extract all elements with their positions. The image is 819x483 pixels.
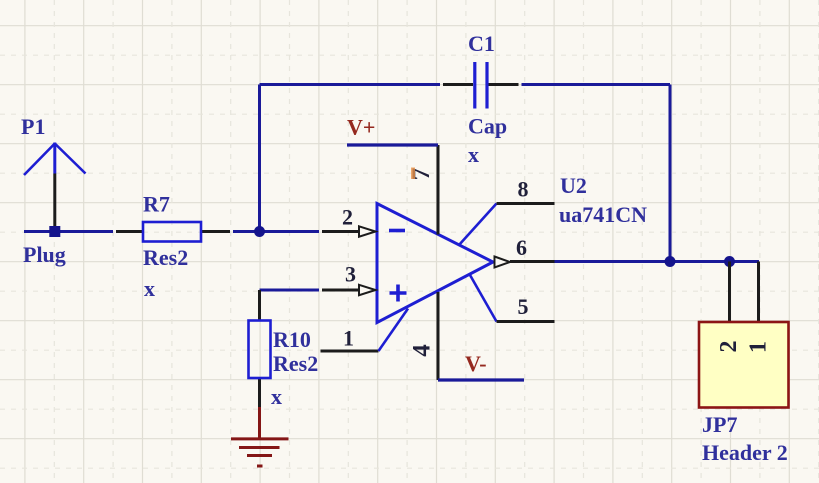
wire: R10 node to non-inverting input	[260, 289, 320, 292]
svg-text:Cap: Cap	[468, 114, 507, 139]
junction: header tap	[724, 256, 735, 267]
power port GND (ground symbol)	[231, 407, 289, 466]
connector P1 (plug symbol)	[24, 143, 86, 227]
junction: inverting input node	[254, 226, 265, 237]
svg-text:x: x	[271, 384, 282, 409]
svg-text:JP7: JP7	[702, 412, 737, 437]
svg-text:1: 1	[746, 341, 772, 353]
resistor R7	[116, 222, 230, 242]
connector JP7 (header)	[699, 262, 789, 408]
wire: feedback top run (left of C1)	[260, 83, 441, 86]
svg-text:Plug: Plug	[23, 242, 66, 267]
svg-text:V-: V-	[465, 351, 487, 376]
wire: feedback right vertical	[669, 85, 672, 262]
svg-text:Header 2: Header 2	[702, 440, 788, 465]
svg-text:x: x	[468, 142, 479, 167]
jpeg artifact tint near pin 7	[411, 168, 415, 180]
pin 8	[459, 204, 555, 246]
pin 5	[470, 275, 555, 322]
svg-text:5: 5	[518, 294, 529, 319]
power port V-	[438, 378, 524, 381]
resistor R10	[249, 290, 271, 407]
svg-text:Res2: Res2	[273, 351, 318, 376]
svg-text:8: 8	[518, 177, 529, 202]
wire: feedback left vertical	[258, 85, 261, 232]
svg-text:R7: R7	[143, 192, 170, 217]
svg-text:1: 1	[343, 326, 354, 351]
junction: P1 pin to wire (square)	[49, 226, 60, 237]
wire: feedback top run (right of C1)	[522, 83, 671, 86]
wire: input net from P1 to R7	[24, 230, 113, 233]
pin 6 (output)	[495, 257, 555, 268]
pin 7 (V+ supply pin)	[437, 145, 440, 235]
svg-text:C1: C1	[468, 31, 495, 56]
pin 2 (inverting input)	[322, 226, 376, 236]
op-amp U2 triangle body	[377, 204, 493, 323]
svg-text:V+: V+	[347, 115, 375, 140]
junction: feedback to output	[665, 256, 676, 267]
wire: output net	[555, 260, 760, 263]
svg-text:2: 2	[716, 341, 742, 353]
svg-text:R10: R10	[273, 327, 311, 352]
plus symbol (non-inverting input)	[390, 285, 407, 302]
svg-text:P1: P1	[21, 114, 45, 139]
svg-text:Res2: Res2	[143, 245, 188, 270]
pin 1 (offset null)	[321, 309, 409, 352]
svg-text:U2: U2	[560, 173, 587, 198]
minus symbol (inverting input)	[389, 229, 405, 233]
svg-text:ua741CN: ua741CN	[559, 202, 647, 227]
svg-text:3: 3	[345, 262, 356, 287]
svg-text:4: 4	[409, 344, 436, 357]
power port V+	[347, 143, 438, 146]
svg-text:x: x	[144, 276, 155, 301]
svg-text:2: 2	[342, 205, 353, 230]
svg-text:6: 6	[516, 235, 527, 260]
wire: R7 to inverting input node	[233, 230, 319, 233]
capacitor C1	[443, 62, 519, 109]
pin 4 (V- supply pin)	[437, 292, 440, 380]
pin 3 (non-inverting input)	[322, 285, 376, 295]
